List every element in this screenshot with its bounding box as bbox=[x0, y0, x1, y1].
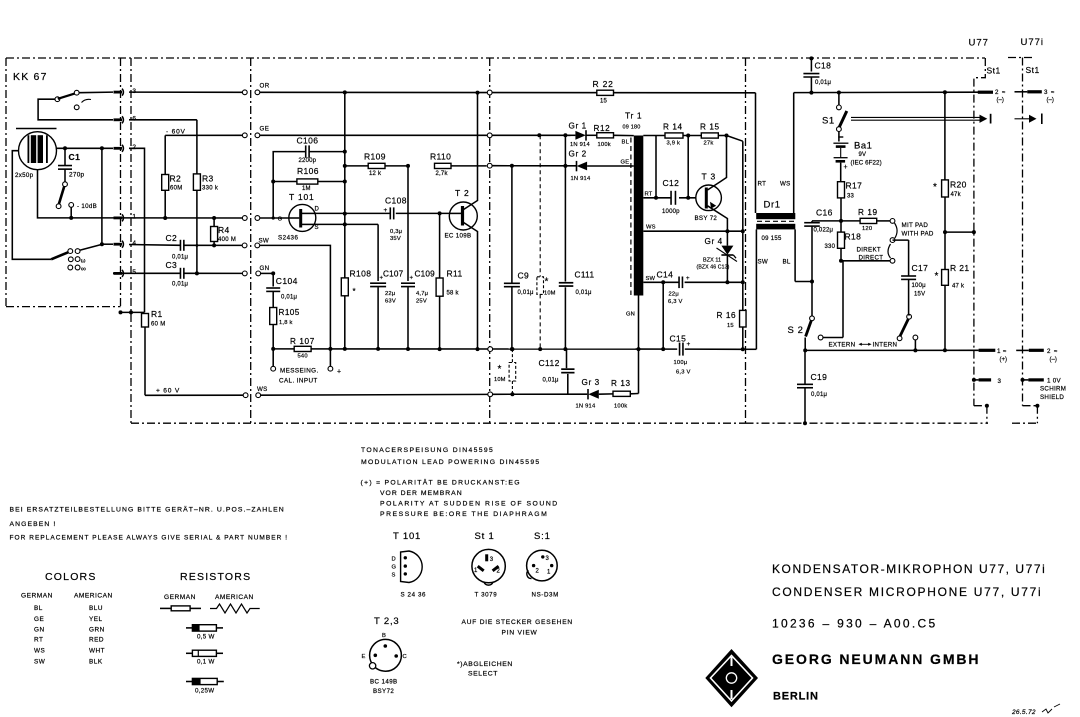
wire shield to R1 node bbox=[119, 310, 145, 314]
U77i connector border bbox=[1008, 58, 1039, 424]
amplifier box bottom edge bbox=[131, 422, 746, 424]
svg-text:10M: 10M bbox=[544, 291, 556, 297]
svg-text:C2: C2 bbox=[166, 233, 178, 243]
svg-text:GRN: GRN bbox=[89, 626, 105, 633]
KK67 box right edge bbox=[120, 58, 122, 307]
svg-text:MESSEING.: MESSEING. bbox=[280, 368, 319, 375]
capacitor C17 bbox=[893, 240, 929, 314]
svg-text:2200p: 2200p bbox=[299, 158, 317, 164]
svg-text:R2: R2 bbox=[170, 174, 182, 184]
capsule K67 bbox=[19, 132, 57, 170]
battery Ba1 bbox=[833, 137, 881, 182]
svg-text:+: + bbox=[410, 276, 414, 282]
U77i pin 2 bottom bbox=[1016, 348, 1058, 363]
wire capsule bottom to pin1 bbox=[38, 170, 114, 218]
feedthrough GN bbox=[242, 271, 260, 276]
svg-text:3: 3 bbox=[1044, 89, 1048, 96]
svg-text:12 k: 12 k bbox=[369, 171, 382, 177]
label OR bbox=[260, 82, 270, 89]
connector pin 6 bbox=[114, 116, 137, 124]
U77 arrow line from S1 bbox=[851, 114, 991, 124]
svg-text:BL: BL bbox=[622, 140, 630, 146]
svg-text:C106: C106 bbox=[297, 136, 319, 146]
capacitor C3 bbox=[113, 260, 245, 287]
svg-text:SW: SW bbox=[34, 658, 46, 665]
svg-text:PRESSURE BE:ORE THE DIAPHRA: PRESSURE BE:ORE THE DIAPHRAGM bbox=[380, 511, 548, 518]
svg-text:*)ABGLEICHEN: *)ABGLEICHEN bbox=[457, 661, 513, 668]
svg-text:T 101: T 101 bbox=[393, 531, 421, 542]
svg-text:+: + bbox=[337, 369, 341, 376]
svg-text:WHT: WHT bbox=[89, 648, 105, 655]
resistor R107 bbox=[271, 337, 332, 360]
svg-text:(–): (–) bbox=[1050, 357, 1057, 363]
package S1 small tuchel pinout bbox=[527, 531, 559, 599]
svg-text:T 3079: T 3079 bbox=[475, 592, 498, 599]
svg-text:6,3 V: 6,3 V bbox=[676, 370, 691, 376]
pattern symbols bbox=[81, 258, 86, 273]
svg-text:C9: C9 bbox=[518, 271, 530, 281]
svg-text:R105: R105 bbox=[279, 308, 300, 317]
svg-text:RT: RT bbox=[645, 191, 653, 197]
svg-text:DIREKT: DIREKT bbox=[857, 247, 882, 254]
wire T101 drain to C108 bbox=[316, 212, 390, 214]
svg-text:R 14: R 14 bbox=[663, 123, 683, 132]
wire SW into module bbox=[260, 245, 331, 349]
wire GN to C104 column bbox=[260, 271, 275, 275]
feedthrough rail bbox=[488, 347, 515, 352]
svg-text:47k: 47k bbox=[951, 192, 962, 198]
svg-text:4: 4 bbox=[132, 240, 136, 247]
svg-text:C19: C19 bbox=[811, 372, 828, 382]
svg-text:R 13: R 13 bbox=[611, 379, 631, 388]
svg-text:R 15: R 15 bbox=[700, 123, 720, 132]
svg-text:5: 5 bbox=[132, 269, 136, 276]
svg-text:26.5.72: 26.5.72 bbox=[1011, 709, 1036, 716]
svg-text:RED: RED bbox=[89, 637, 104, 644]
svg-text:63V: 63V bbox=[385, 299, 396, 305]
svg-text:MODULATION LEAD POWERING DI: MODULATION LEAD POWERING DIN45595 bbox=[361, 459, 541, 466]
svg-text:1N 914: 1N 914 bbox=[571, 176, 591, 182]
svg-text:Tr 1: Tr 1 bbox=[625, 111, 642, 121]
select resistor 10M lower (dashed) bbox=[494, 349, 516, 396]
svg-text:∞: ∞ bbox=[81, 266, 86, 273]
label KK 67 bbox=[13, 71, 48, 83]
zener Gr4 (BZX) bbox=[697, 231, 738, 284]
capacitor C12 bbox=[662, 178, 696, 215]
svg-text:C107: C107 bbox=[383, 270, 404, 279]
wire GE to diode node bbox=[537, 133, 570, 137]
svg-text:BL: BL bbox=[34, 605, 43, 612]
diode Gr1 (1N914) bbox=[565, 121, 596, 148]
svg-text:60 M: 60 M bbox=[151, 322, 166, 328]
title kondensator mikrophon bbox=[772, 562, 1046, 599]
package St1 pinout bbox=[472, 531, 505, 599]
svg-text:(–): (–) bbox=[1047, 98, 1054, 104]
label St1 (U77) bbox=[987, 66, 1001, 76]
svg-text:VOR DER MEMBRAN: VOR DER MEMBRAN bbox=[380, 490, 463, 497]
transformer WS tap bbox=[643, 225, 745, 234]
svg-text:+ 60 V: + 60 V bbox=[156, 387, 180, 394]
switch S-pattern upper (pins 3/6) bbox=[55, 90, 91, 109]
wire OR rail bbox=[129, 90, 756, 94]
svg-text:100μ: 100μ bbox=[912, 283, 927, 289]
svg-text:RT: RT bbox=[34, 637, 43, 644]
resistor R4 bbox=[211, 218, 237, 247]
wire rail corner to Dr1 WS bbox=[793, 93, 795, 213]
wire T101 source to C107 bbox=[316, 224, 378, 281]
U77 pin 2 bbox=[978, 89, 1006, 104]
svg-text:St1: St1 bbox=[987, 66, 1001, 76]
svg-text:S: S bbox=[315, 225, 319, 231]
svg-text:R11: R11 bbox=[447, 269, 463, 279]
svg-text:10236 – 930 – A00.C5: 10236 – 930 – A00.C5 bbox=[772, 617, 937, 631]
capacitor C107 bbox=[370, 270, 404, 351]
svg-text:15: 15 bbox=[727, 323, 734, 329]
svg-text:EC 109B: EC 109B bbox=[445, 233, 472, 240]
svg-text:AMERICAN: AMERICAN bbox=[74, 593, 113, 600]
resistor symbol american zigzag bbox=[210, 604, 260, 613]
svg-text:BLK: BLK bbox=[89, 658, 103, 665]
svg-text:4,7μ: 4,7μ bbox=[416, 291, 428, 297]
svg-text:0,01μ: 0,01μ bbox=[576, 290, 592, 296]
svg-text:C104: C104 bbox=[276, 276, 298, 286]
connector pin 5 bbox=[114, 269, 137, 277]
wire R14R15 junction to base bbox=[687, 136, 689, 198]
resistor R108 bbox=[341, 269, 371, 297]
svg-text:+: + bbox=[686, 276, 690, 282]
resistor R3 bbox=[193, 174, 218, 276]
svg-text:09 155: 09 155 bbox=[762, 236, 783, 242]
label GE tap bbox=[621, 160, 630, 166]
svg-text:PIN VIEW: PIN VIEW bbox=[502, 630, 538, 637]
supply bus T101 bbox=[343, 92, 347, 351]
svg-text:0,01μ: 0,01μ bbox=[815, 80, 831, 86]
diode Gr3 (1N914) bbox=[576, 378, 614, 410]
svg-text:1,8 k: 1,8 k bbox=[279, 320, 293, 326]
svg-text:NS-D3M: NS-D3M bbox=[532, 592, 559, 599]
svg-text:RESISTORS: RESISTORS bbox=[180, 571, 251, 583]
direct selector bbox=[841, 242, 895, 263]
svg-text:22μ: 22μ bbox=[669, 292, 679, 298]
ground rail bbox=[273, 348, 756, 350]
svg-text:0,3μ: 0,3μ bbox=[390, 229, 402, 235]
svg-text:YEL: YEL bbox=[89, 616, 103, 623]
svg-text:S 24 36: S 24 36 bbox=[401, 592, 427, 599]
svg-text:+: + bbox=[687, 341, 691, 348]
svg-text:0,01μ: 0,01μ bbox=[172, 281, 188, 287]
switch C1 pad (-10dB) bbox=[56, 182, 73, 218]
title part number bbox=[772, 617, 937, 631]
svg-text:R20: R20 bbox=[950, 180, 967, 190]
transistor T2 (EC109B) bbox=[445, 93, 480, 352]
svg-text:60M: 60M bbox=[170, 186, 183, 192]
package T2 T3 pinout bbox=[362, 616, 407, 695]
transistor T3 (BSY72) bbox=[695, 136, 728, 232]
amplifier box right edge bbox=[745, 58, 747, 423]
node -10dB to pin1 wire bbox=[69, 216, 73, 220]
svg-text:15: 15 bbox=[600, 99, 608, 105]
note tonaderspeisung bbox=[361, 447, 541, 466]
note pin view bbox=[462, 619, 573, 637]
module divider (output stage) bbox=[489, 58, 491, 423]
svg-text:+: + bbox=[380, 276, 384, 282]
svg-text:6,3 V: 6,3 V bbox=[668, 299, 683, 305]
svg-text:R106: R106 bbox=[297, 166, 319, 176]
svg-text:GN: GN bbox=[260, 265, 270, 272]
wire OR corner to Dr1 RT bbox=[755, 93, 757, 213]
svg-text:G: G bbox=[278, 217, 282, 223]
label GN bbox=[260, 265, 270, 272]
svg-text:(IEC 6F22): (IEC 6F22) bbox=[851, 159, 882, 166]
resistor R11 bbox=[436, 213, 463, 351]
wire battery top rail bbox=[794, 90, 979, 94]
svg-text:TONACERSPEISUNG DIN45595: TONACERSPEISUNG DIN45595 bbox=[361, 447, 494, 454]
label SW bbox=[259, 238, 270, 245]
svg-text:3: 3 bbox=[998, 378, 1002, 385]
svg-text:GERMAN: GERMAN bbox=[164, 594, 196, 601]
svg-text:R18: R18 bbox=[845, 232, 862, 242]
svg-text:R 107: R 107 bbox=[290, 337, 315, 346]
svg-text:C16: C16 bbox=[816, 208, 833, 218]
resistor R105 bbox=[270, 308, 300, 349]
wire R20 node to connector bbox=[945, 230, 976, 234]
svg-text:AUF DIE STECKER GESEHEN: AUF DIE STECKER GESEHEN bbox=[462, 619, 573, 626]
resistor R2 bbox=[162, 135, 183, 220]
wire R14 left to RT bbox=[655, 136, 657, 198]
note replacement (german) bbox=[10, 506, 285, 529]
svg-text:COLORS: COLORS bbox=[45, 571, 97, 583]
svg-text:(+): (+) bbox=[1000, 357, 1008, 363]
label WS bbox=[257, 386, 268, 393]
select resistor 10M upper (dashed) bbox=[537, 135, 556, 351]
label St1 (U77i) bbox=[1026, 65, 1040, 75]
module divider (input stage) bbox=[250, 58, 252, 423]
output rail (+) bbox=[805, 348, 978, 352]
svg-text:3,9 k: 3,9 k bbox=[667, 141, 681, 147]
svg-text:+: + bbox=[844, 164, 848, 171]
svg-text:R17: R17 bbox=[846, 181, 863, 191]
svg-text:R12: R12 bbox=[594, 124, 611, 133]
svg-text:1N 914: 1N 914 bbox=[570, 142, 590, 148]
svg-text:35V: 35V bbox=[390, 236, 401, 242]
label -10dB bbox=[77, 203, 97, 210]
capacitor C15 bbox=[670, 334, 691, 376]
neumann logo bbox=[705, 649, 758, 707]
wire WS-Gr3 rail bbox=[488, 392, 587, 397]
label GE bbox=[260, 125, 270, 132]
svg-text:1: 1 bbox=[132, 214, 136, 221]
svg-text:C12: C12 bbox=[663, 178, 680, 188]
transformer Tr1 winding bar bbox=[634, 136, 644, 296]
svg-text:540: 540 bbox=[298, 354, 308, 360]
wire pattern contact to pin4 wire bbox=[80, 244, 102, 250]
colors table bbox=[21, 571, 113, 665]
svg-text:120: 120 bbox=[862, 226, 872, 232]
svg-text:S2436: S2436 bbox=[278, 235, 298, 242]
svg-text:GN: GN bbox=[34, 626, 45, 633]
svg-text:Ba1: Ba1 bbox=[854, 141, 872, 152]
svg-text:C3: C3 bbox=[166, 260, 178, 270]
svg-text:100μ: 100μ bbox=[674, 360, 688, 366]
svg-text:SELECT: SELECT bbox=[468, 671, 498, 678]
svg-text:400 M: 400 M bbox=[218, 237, 236, 243]
wire capsule right / pin2 node bbox=[57, 146, 114, 150]
label U77i bbox=[1021, 37, 1045, 48]
resistor symbol 0,25W bbox=[186, 678, 224, 694]
svg-text:1 0V: 1 0V bbox=[1047, 378, 1062, 385]
svg-text:10M: 10M bbox=[494, 377, 506, 383]
svg-text:C112: C112 bbox=[539, 358, 560, 368]
note replacement (english) bbox=[10, 535, 289, 542]
diode Gr2 (1N914) bbox=[569, 150, 634, 183]
svg-text:C15: C15 bbox=[670, 334, 687, 344]
wire capsule left to pattern switch bbox=[12, 151, 51, 260]
svg-text:15V: 15V bbox=[914, 292, 925, 298]
svg-text:BERLIN: BERLIN bbox=[773, 691, 819, 703]
svg-text:(–): (–) bbox=[997, 98, 1004, 104]
svg-text:T 3: T 3 bbox=[702, 172, 717, 182]
U77i arrow line bbox=[1015, 114, 1042, 125]
svg-text:47 k: 47 k bbox=[952, 284, 965, 290]
feedthrough SW bbox=[242, 243, 259, 248]
svg-text:S: S bbox=[392, 573, 396, 579]
feedthrough GE bbox=[242, 133, 259, 138]
svg-text:B: B bbox=[382, 633, 386, 639]
note polarity bbox=[361, 479, 559, 518]
label RT WS bbox=[758, 181, 791, 188]
svg-text:- 10dB: - 10dB bbox=[77, 203, 97, 210]
KK67 box left edge bbox=[5, 58, 7, 307]
svg-text:T 2,3: T 2,3 bbox=[374, 616, 399, 627]
connector pin 4 bbox=[114, 240, 137, 248]
svg-text:BL: BL bbox=[783, 259, 791, 266]
wire C17 to S2 bbox=[908, 314, 910, 316]
resistor symbol german bbox=[160, 606, 201, 611]
capacitor C112 bbox=[539, 349, 575, 394]
transformer SW tap bbox=[643, 276, 679, 285]
Dr1 SW lead bbox=[756, 229, 768, 349]
svg-text:0,01μ: 0,01μ bbox=[518, 290, 534, 296]
switch S2 bbox=[788, 261, 918, 353]
cal input contacts bbox=[271, 349, 341, 385]
svg-text:6: 6 bbox=[132, 116, 136, 123]
title georg neumann gmbh bbox=[772, 651, 980, 667]
svg-text:+: + bbox=[384, 207, 388, 214]
resistor R19 bbox=[841, 208, 895, 232]
svg-text:C17: C17 bbox=[912, 263, 929, 273]
svg-text:SW: SW bbox=[758, 259, 769, 266]
svg-text:330: 330 bbox=[825, 244, 836, 250]
svg-text:SW: SW bbox=[646, 276, 656, 282]
svg-text:R4: R4 bbox=[218, 225, 230, 235]
resistor symbol 0,5W bbox=[186, 625, 223, 641]
svg-text:WS: WS bbox=[646, 225, 656, 231]
svg-text:FOR REPLACEMENT PLEASE ALWA: FOR REPLACEMENT PLEASE ALWAYS GIVE SERIA… bbox=[10, 535, 289, 542]
svg-text:SCHIRM: SCHIRM bbox=[1040, 386, 1066, 393]
resistor R20 bbox=[933, 92, 967, 234]
svg-text:RT: RT bbox=[758, 181, 767, 188]
date annotation bbox=[1011, 704, 1060, 716]
svg-text:BSY72: BSY72 bbox=[373, 688, 394, 695]
capacitor C111 bbox=[559, 271, 595, 297]
wire C14 left branch bbox=[661, 282, 665, 351]
wire T3 node down through R16 bbox=[727, 136, 745, 352]
resistor R109 bbox=[343, 152, 410, 178]
svg-text:330 k: 330 k bbox=[202, 186, 219, 192]
svg-text:BC 149B: BC 149B bbox=[370, 679, 398, 686]
svg-text:*: * bbox=[933, 182, 937, 193]
svg-text:2,7k: 2,7k bbox=[436, 171, 449, 177]
svg-text:27k: 27k bbox=[704, 141, 714, 147]
svg-text:INTERN: INTERN bbox=[873, 342, 898, 349]
label BL bbox=[622, 140, 630, 146]
label +60V bbox=[156, 387, 180, 394]
svg-text:OR: OR bbox=[260, 82, 270, 89]
resistor symbol 0,1W bbox=[186, 650, 223, 665]
KK67 box bottom edge bbox=[6, 306, 121, 308]
capacitor C108 bbox=[384, 196, 450, 243]
resistor R1 bbox=[142, 309, 166, 395]
svg-text:100k: 100k bbox=[598, 142, 611, 148]
right section bottom border bbox=[746, 422, 1038, 424]
package T101 pinout bbox=[392, 531, 427, 599]
pattern switch (pins 4/5) bbox=[51, 249, 80, 270]
feedthrough G bbox=[242, 216, 259, 221]
capacitor C106 bbox=[271, 136, 347, 220]
svg-text:EXTERN: EXTERN bbox=[829, 342, 856, 349]
svg-text:C14: C14 bbox=[657, 270, 674, 280]
svg-text:D: D bbox=[392, 556, 396, 562]
U77i pin 1 0V bbox=[1021, 378, 1067, 401]
wire pin1 / gate rail bbox=[113, 216, 289, 220]
svg-text:*: * bbox=[353, 287, 356, 296]
svg-text:T 2: T 2 bbox=[455, 188, 470, 198]
svg-text:*: * bbox=[545, 277, 549, 288]
svg-text:Dr1: Dr1 bbox=[764, 200, 781, 211]
svg-text:E: E bbox=[362, 654, 366, 660]
resistors table bbox=[164, 571, 254, 601]
feedthrough R110 bbox=[487, 163, 492, 168]
wire C111 branch bbox=[563, 135, 567, 351]
resistor R16 bbox=[717, 310, 747, 329]
capacitor C14 bbox=[657, 270, 745, 306]
svg-text:C: C bbox=[403, 654, 407, 660]
svg-text:U77: U77 bbox=[969, 38, 989, 49]
svg-text:GE: GE bbox=[621, 160, 630, 166]
svg-text:R3: R3 bbox=[202, 174, 214, 184]
svg-text:R 22: R 22 bbox=[593, 79, 614, 89]
svg-text:58 k: 58 k bbox=[447, 291, 460, 297]
svg-text:GERMAN: GERMAN bbox=[21, 593, 53, 600]
svg-text:WS: WS bbox=[780, 181, 791, 188]
pad selector bracket bbox=[890, 222, 934, 243]
svg-text:0,01μ: 0,01μ bbox=[281, 295, 297, 301]
svg-text:KK 67: KK 67 bbox=[13, 71, 48, 83]
svg-text:Gr 1: Gr 1 bbox=[569, 121, 587, 130]
svg-text:*: * bbox=[935, 271, 939, 282]
svg-text:WITH PAD: WITH PAD bbox=[902, 231, 934, 238]
capacitor C1 bbox=[58, 148, 85, 182]
label 2x50p bbox=[15, 172, 34, 179]
svg-text:SHIELD: SHIELD bbox=[1040, 394, 1064, 401]
svg-text:100k: 100k bbox=[614, 404, 627, 410]
svg-text:GN: GN bbox=[626, 312, 635, 318]
svg-text:- 60V: - 60V bbox=[166, 129, 186, 136]
svg-text:CONDENSER MICROPHONE U77, U7: CONDENSER MICROPHONE U77, U77i bbox=[772, 585, 1042, 599]
feedthrough OR bbox=[242, 90, 259, 95]
capsule membrane line bbox=[16, 128, 57, 130]
svg-text:C1: C1 bbox=[69, 152, 81, 162]
